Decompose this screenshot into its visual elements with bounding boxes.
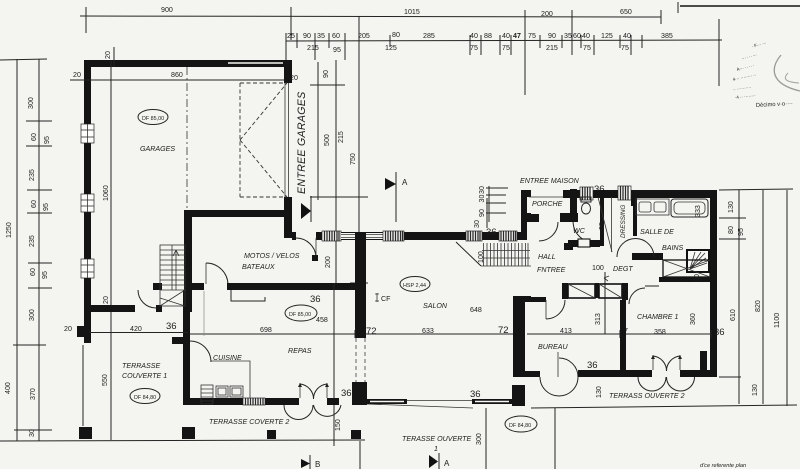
hall wall west of repas: [86, 305, 135, 312]
svg-text:100: 100: [477, 251, 485, 263]
svg-text:DF 85,00: DF 85,00: [289, 312, 311, 318]
svg-text:25: 25: [598, 222, 606, 230]
wall stub stairs left: [156, 305, 162, 312]
ticks y334: [187, 330, 189, 338]
wall stub hall: [564, 243, 573, 250]
svg-text:TERASSE OUVERTE: TERASSE OUVERTE: [402, 435, 472, 443]
window salon north bay (thin): [341, 233, 383, 239]
svg-text:20: 20: [64, 325, 72, 333]
right dim verticals: [738, 190, 740, 404]
staircase: [160, 245, 185, 306]
wall wc east: [600, 197, 604, 246]
ellipse DF 85,00 repas: [285, 305, 317, 321]
svg-text:820: 820: [754, 300, 762, 312]
window salon south A: [367, 399, 407, 404]
svg-text:36: 36: [714, 327, 725, 338]
post t1 left: [79, 427, 92, 439]
hall steps diagonal: [456, 242, 481, 266]
svg-text:648: 648: [470, 306, 482, 314]
svg-text:88: 88: [484, 32, 492, 40]
wall chambre north thin: [645, 285, 659, 287]
svg-text:1250: 1250: [5, 222, 13, 238]
wall south chambre east: [680, 370, 716, 377]
svg-text:80: 80: [727, 226, 735, 234]
kitchen hatch block: [201, 385, 213, 404]
window garage west 2: [81, 194, 94, 212]
svg-text:300: 300: [27, 97, 35, 109]
svg-text:DF 84,80: DF 84,80: [134, 395, 156, 401]
door arc salon north: [296, 238, 316, 258]
vertical dim x486: [485, 408, 487, 469]
svg-text:1015: 1015: [404, 8, 420, 16]
svg-text:370: 370: [29, 388, 37, 400]
svg-text:40: 40: [502, 32, 510, 40]
svg-text:95: 95: [42, 203, 50, 211]
svg-text:90: 90: [548, 32, 556, 40]
svg-text:30: 30: [478, 186, 486, 194]
tick 900 start: [85, 7, 87, 33]
svg-text:d'ce referente plan: d'ce referente plan: [700, 463, 746, 469]
hall steps rails: [481, 251, 531, 267]
svg-text:60: 60: [693, 274, 701, 282]
stairs cut diagonals: [160, 245, 185, 306]
wall garage east lower: [284, 197, 292, 216]
svg-text:20: 20: [104, 51, 112, 59]
porch dims 30/30/90: [488, 186, 490, 222]
window salon north 2: [383, 231, 404, 241]
door arc cuisine: [190, 341, 211, 362]
svg-text:SALON: SALON: [423, 302, 448, 310]
section marker A top: [385, 178, 396, 190]
door arc degt-bains: [617, 239, 654, 257]
svg-text:72: 72: [498, 325, 509, 336]
svg-text:40: 40: [470, 32, 478, 40]
beam symbol: [231, 297, 265, 301]
svg-text:750: 750: [349, 153, 357, 165]
svg-text:60: 60: [30, 200, 38, 208]
svg-text:36: 36: [310, 294, 321, 305]
left dim vertical lines: [16, 59, 18, 441]
wall bureau north w/ door: [527, 297, 546, 302]
svg-text:458: 458: [316, 316, 328, 324]
svg-text:130: 130: [751, 384, 759, 396]
svg-text:BATEAUX: BATEAUX: [242, 263, 275, 271]
svg-text:200: 200: [541, 10, 553, 18]
arrow 100: [604, 276, 609, 281]
svg-text:1: 1: [434, 445, 438, 453]
closet divider: [595, 283, 599, 298]
tick long at 525: [524, 10, 526, 95]
dim line y334 across: [188, 333, 355, 335]
kitchen counter outline: [211, 361, 250, 398]
stamp border top right: [680, 5, 800, 7]
svg-text:90: 90: [303, 32, 311, 40]
svg-text:75: 75: [621, 44, 629, 52]
svg-text:610: 610: [729, 309, 737, 321]
svg-text:80: 80: [392, 31, 400, 39]
door bureau south leaf: [557, 352, 559, 377]
wall cuisine north stub: [172, 337, 190, 344]
svg-text:235: 235: [28, 169, 36, 181]
wall bureau/chambre divider: [620, 300, 626, 371]
wall garage west: [84, 60, 91, 343]
svg-text:40: 40: [582, 32, 590, 40]
svg-text:25: 25: [287, 32, 295, 40]
svg-text:400: 400: [4, 382, 12, 394]
wall north maison: [563, 190, 716, 198]
svg-text:60: 60: [573, 32, 581, 40]
french door repas upper arcs: [300, 384, 327, 399]
wall salon north: [292, 232, 296, 240]
wall chambre north strip: [659, 277, 716, 282]
shower: [687, 250, 709, 272]
french door repas lower arcs: [284, 405, 341, 420]
wall motos east (to salon wall): [284, 216, 292, 238]
wall south between doors: [578, 370, 652, 377]
svg-text:DEGT: DEGT: [613, 265, 633, 273]
wall south bureau corner: [514, 371, 540, 377]
svg-text:36: 36: [341, 388, 352, 399]
wall entree south: [562, 283, 568, 299]
svg-text:500: 500: [323, 134, 331, 146]
sink counter salle de bains: [636, 199, 669, 215]
wall stub stairs west: [153, 283, 162, 290]
window dressing north (pillar): [618, 186, 631, 200]
svg-text:285: 285: [423, 32, 435, 40]
svg-text:90: 90: [322, 70, 330, 78]
open rail salon south: [407, 400, 472, 402]
wall repas south 2: [265, 398, 299, 405]
svg-text:100: 100: [592, 264, 604, 272]
wall 72 dashed lower: [356, 338, 365, 382]
svg-text:215: 215: [307, 44, 319, 52]
svg-text:36: 36: [486, 227, 497, 238]
long vertical right dim: [718, 19, 720, 86]
svg-text:125: 125: [601, 32, 613, 40]
french door chambre upper arcs: [653, 356, 680, 371]
door arc hall-terrasse: [138, 290, 156, 308]
dim line top 900/1015/200/650: [80, 16, 661, 17]
svg-text:75: 75: [470, 44, 478, 52]
svg-text:698: 698: [260, 326, 272, 334]
section marker mid: [301, 203, 311, 219]
window wc north: [580, 187, 593, 200]
svg-text:420: 420: [130, 325, 142, 333]
vertical dim x555: [554, 408, 556, 469]
wall bains south: [632, 253, 663, 260]
svg-text:413: 413: [560, 327, 572, 335]
svg-text:150: 150: [334, 419, 342, 431]
corner south east: [700, 351, 707, 371]
dim 20 top rotated: [113, 47, 115, 67]
svg-text:SALLE DE: SALLE DE: [640, 228, 674, 236]
wall porch south w/ door: [527, 214, 539, 222]
hall steps right edge: [526, 243, 529, 266]
svg-text:FNTREE: FNTREE: [537, 266, 566, 274]
dim 860 line: [91, 79, 285, 81]
garage door leaf double line: [284, 83, 286, 197]
svg-text:60: 60: [29, 268, 37, 276]
svg-text:GARAGES: GARAGES: [140, 145, 175, 153]
ellipse HSP 2,44: [400, 277, 430, 292]
wall 72 repas/salon: [355, 232, 366, 338]
wall east main: [710, 190, 717, 377]
vertical dim x336 lower: [333, 283, 335, 446]
svg-text:B: B: [315, 460, 320, 469]
garage axis dash-dot line: [186, 67, 188, 210]
wall porch west: [521, 190, 527, 240]
svg-text:215: 215: [337, 131, 345, 143]
french door chambre lower arcs: [638, 377, 695, 391]
wall repas south: [188, 398, 243, 405]
svg-text:900: 900: [161, 6, 173, 14]
svg-text:ENTREE MAISON: ENTREE MAISON: [520, 177, 580, 185]
window garage west 1: [81, 124, 94, 143]
svg-text:20: 20: [73, 71, 81, 79]
svg-text:90: 90: [478, 209, 486, 217]
svg-text:75: 75: [528, 32, 536, 40]
svg-text:130: 130: [727, 201, 735, 213]
svg-text:TERRASS OUVERTE 2: TERRASS OUVERTE 2: [609, 392, 685, 400]
toilet WC: [581, 197, 591, 202]
wall porch east: [570, 189, 577, 222]
stamp faint arc inner: [785, 73, 799, 83]
svg-text:30: 30: [473, 220, 481, 228]
wall repas south 3: [327, 398, 339, 405]
svg-text:REPAS: REPAS: [288, 347, 312, 355]
door arc porch-hall: [539, 222, 558, 241]
svg-text:20: 20: [290, 74, 298, 82]
dressing sliding door diagonal: [598, 197, 612, 252]
bains west wall stub: [633, 199, 637, 236]
svg-text:95: 95: [737, 228, 745, 236]
svg-text:360: 360: [689, 313, 697, 325]
closet box 2: [599, 284, 622, 298]
post t1 right: [182, 427, 195, 439]
svg-text:95: 95: [43, 136, 51, 144]
svg-text:DF 85,00: DF 85,00: [142, 116, 164, 122]
vertical dim x83: [82, 345, 84, 426]
wall garage north: [85, 60, 292, 67]
duct box in wc south wall: [578, 239, 590, 247]
svg-text:35: 35: [564, 32, 572, 40]
svg-text:30: 30: [28, 429, 36, 437]
svg-text:A: A: [444, 459, 450, 468]
post t2 left: [267, 430, 276, 439]
svg-text:PORCHE: PORCHE: [532, 200, 563, 208]
door arc chambre: [629, 288, 645, 304]
svg-text:95: 95: [333, 46, 341, 54]
window salon south B: [472, 399, 512, 404]
hall steps hatch: [484, 243, 523, 266]
svg-text:358: 358: [654, 328, 666, 336]
window salon north 3: [466, 231, 482, 241]
svg-text:300: 300: [475, 433, 483, 445]
svg-text:385: 385: [661, 32, 673, 40]
kitchen sink 2: [230, 386, 243, 397]
wall dressing east stub: [631, 196, 637, 206]
svg-text:36: 36: [166, 321, 177, 332]
svg-text:ENTREE GARAGES: ENTREE GARAGES: [296, 91, 308, 194]
french door repas leaves: [299, 383, 301, 398]
svg-text:1100: 1100: [773, 313, 781, 328]
closet box 1: [568, 284, 595, 298]
ellipse DF 84,80 t-ouverte: [505, 416, 537, 432]
post 72 south: [352, 382, 367, 405]
bathtub: [671, 199, 708, 217]
svg-text:CHAMBRE 1: CHAMBRE 1: [637, 313, 678, 321]
svg-text:HSP 2,44: HSP 2,44: [403, 283, 426, 289]
kitchen sink 1: [216, 386, 228, 397]
french door chambre leaves: [652, 355, 654, 370]
wall cuisine west: [183, 290, 190, 405]
left ticks: [0, 59, 47, 60]
stamp faint arc outer: [774, 55, 800, 91]
svg-text:DF 84,80: DF 84,80: [509, 423, 531, 429]
svg-text:95: 95: [41, 271, 49, 279]
svg-text:75: 75: [583, 44, 591, 52]
window salon north 4: [499, 231, 517, 241]
CF mark: [375, 293, 379, 302]
right ticks: [719, 189, 793, 190]
vertical dim line x111: [110, 60, 112, 440]
entree garages dims: [317, 62, 319, 200]
dim line vertical x605: [604, 272, 606, 334]
wall garage south (motos north): [184, 210, 292, 217]
svg-text:36: 36: [470, 389, 481, 400]
ellipse DF 84,80 t1: [130, 389, 160, 404]
section marker A bottom: [429, 455, 438, 468]
door arc WC: [573, 222, 595, 243]
porch threshold line: [529, 196, 570, 198]
svg-text:860: 860: [171, 71, 183, 79]
svg-text:300: 300: [28, 309, 36, 321]
ellipse DF 85,00 garage: [138, 110, 168, 125]
svg-text:60: 60: [30, 133, 38, 141]
svg-text:20: 20: [102, 296, 110, 304]
wall chambre west stub: [622, 283, 628, 300]
svg-text:CF: CF: [381, 295, 391, 303]
wall motos south left segment: [192, 283, 204, 290]
tick 900 end: [290, 7, 292, 40]
wall garage west foot: [77, 326, 89, 337]
door arc motos: [206, 263, 228, 285]
svg-text:DRESSING: DRESSING: [620, 205, 627, 238]
svg-text:125: 125: [385, 44, 397, 52]
svg-text:TERRASSE COVERTE 2: TERRASSE COVERTE 2: [209, 418, 289, 426]
tick 200 end: [571, 10, 573, 40]
window repas south: [243, 398, 265, 405]
svg-text:COUVERTE 1: COUVERTE 1: [122, 372, 167, 380]
section marker B bottom: [301, 459, 310, 468]
garage door swing dashed: [240, 83, 287, 197]
svg-text:200: 200: [324, 256, 332, 268]
svg-text:36: 36: [587, 360, 598, 371]
svg-text:75: 75: [502, 44, 510, 52]
wall motos south right segment: [227, 283, 355, 290]
tick 650 end: [660, 10, 662, 24]
svg-text:35: 35: [317, 32, 325, 40]
svg-text:235: 235: [28, 235, 36, 247]
stairs up arrow: [173, 250, 179, 290]
svg-text:30: 30: [478, 195, 486, 203]
post t2 right: [351, 430, 361, 439]
svg-text:BAINS: BAINS: [662, 244, 684, 252]
svg-text:TERRASSE: TERRASSE: [122, 362, 161, 370]
svg-text:HALL: HALL: [538, 253, 556, 261]
svg-text:60: 60: [332, 32, 340, 40]
svg-text:72: 72: [366, 326, 377, 337]
svg-text:215: 215: [546, 44, 558, 52]
svg-text:BUREAU: BUREAU: [538, 343, 568, 351]
post bureau south: [512, 385, 525, 406]
svg-text:MOTOS / VELOS: MOTOS / VELOS: [244, 252, 300, 260]
door arc bureau: [546, 300, 565, 319]
svg-text:A: A: [402, 178, 408, 187]
wall wc south: [568, 240, 600, 247]
svg-text:47: 47: [513, 32, 521, 40]
door bureau south semicircle: [540, 377, 578, 396]
window salon north 1: [322, 231, 341, 241]
svg-text:130: 130: [595, 386, 603, 398]
svg-text:1060: 1060: [102, 185, 110, 201]
wall bureau west thick: [513, 296, 525, 377]
row2 ticks: [285, 33, 287, 60]
svg-text:40: 40: [623, 32, 631, 40]
svg-text:205: 205: [358, 32, 370, 40]
svg-text:313: 313: [594, 313, 602, 325]
wall motos west: [184, 217, 192, 312]
window garage west 3: [81, 259, 94, 278]
closet chambre north: [663, 260, 710, 277]
svg-text:650: 650: [620, 8, 632, 16]
wall garage east upper: [284, 60, 292, 83]
svg-text:550: 550: [101, 374, 109, 386]
dim line 2: [286, 40, 722, 41]
terrace edge line: [367, 404, 473, 408]
stamp faint text rows: [732, 40, 767, 100]
svg-text:333: 333: [694, 205, 702, 217]
